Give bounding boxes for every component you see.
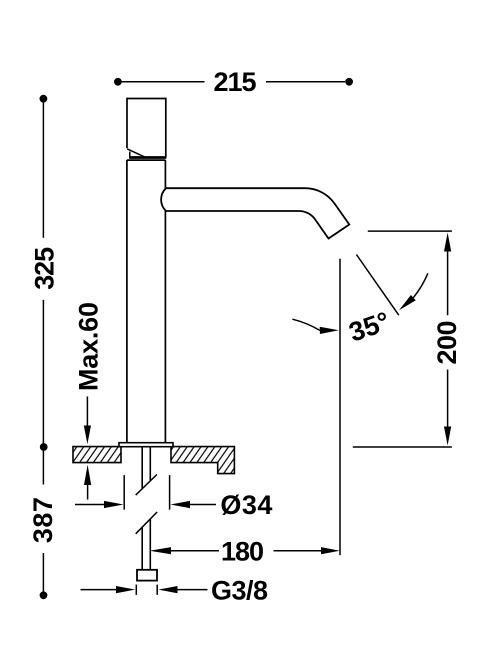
base flange <box>119 443 173 447</box>
dim 325 label <box>29 247 59 290</box>
dim 325 line <box>40 95 48 447</box>
dim 387 line <box>40 443 48 599</box>
G3/8 nut <box>137 570 157 581</box>
svg-text:Max.60: Max.60 <box>74 302 104 391</box>
dim 387 label <box>28 497 58 543</box>
dim 200 label <box>432 321 462 365</box>
dim 180 line <box>150 547 340 554</box>
outlet vertical centerline <box>339 259 341 555</box>
svg-text:Ø34: Ø34 <box>220 490 272 520</box>
shank lower segment <box>142 519 150 570</box>
dim O34 extension lines <box>124 475 169 510</box>
faucet handle <box>127 99 166 158</box>
svg-text:325: 325 <box>29 247 59 290</box>
shank break lines <box>136 475 157 534</box>
dim Max.60 lower arrow <box>84 465 91 500</box>
angle arc left with arrowhead <box>292 319 338 334</box>
faucet body <box>127 160 165 443</box>
svg-text:387: 387 <box>28 497 58 543</box>
dim O34 arrows <box>75 501 216 508</box>
spout <box>161 188 349 238</box>
svg-text:G3/8: G3/8 <box>211 575 268 605</box>
svg-text:180: 180 <box>221 537 264 567</box>
dim Max.60 label <box>74 302 104 391</box>
dim 215 label <box>214 67 257 97</box>
deck left slab (hatched countertop) <box>73 447 121 463</box>
dim O34 label <box>220 490 272 520</box>
svg-text:35°: 35° <box>345 306 393 348</box>
spout axis diagonal line <box>356 255 398 316</box>
svg-text:215: 215 <box>214 67 257 97</box>
dim Max.60 upper arrow <box>84 396 91 444</box>
dim G3/8 label <box>211 575 268 605</box>
dim 35deg label <box>345 306 393 348</box>
deck right slab with step (hatched countertop) <box>171 447 234 474</box>
dim 200 line with arrows <box>444 233 451 446</box>
dim 200 extension lines <box>353 231 452 447</box>
svg-text:200: 200 <box>432 321 462 365</box>
dim 180 label <box>221 537 264 567</box>
dim 215 line <box>114 78 353 86</box>
angle arc right with arrowhead <box>399 273 428 310</box>
dim G3/8 arrows and ticks <box>81 585 208 595</box>
shank upper segment <box>142 447 150 489</box>
